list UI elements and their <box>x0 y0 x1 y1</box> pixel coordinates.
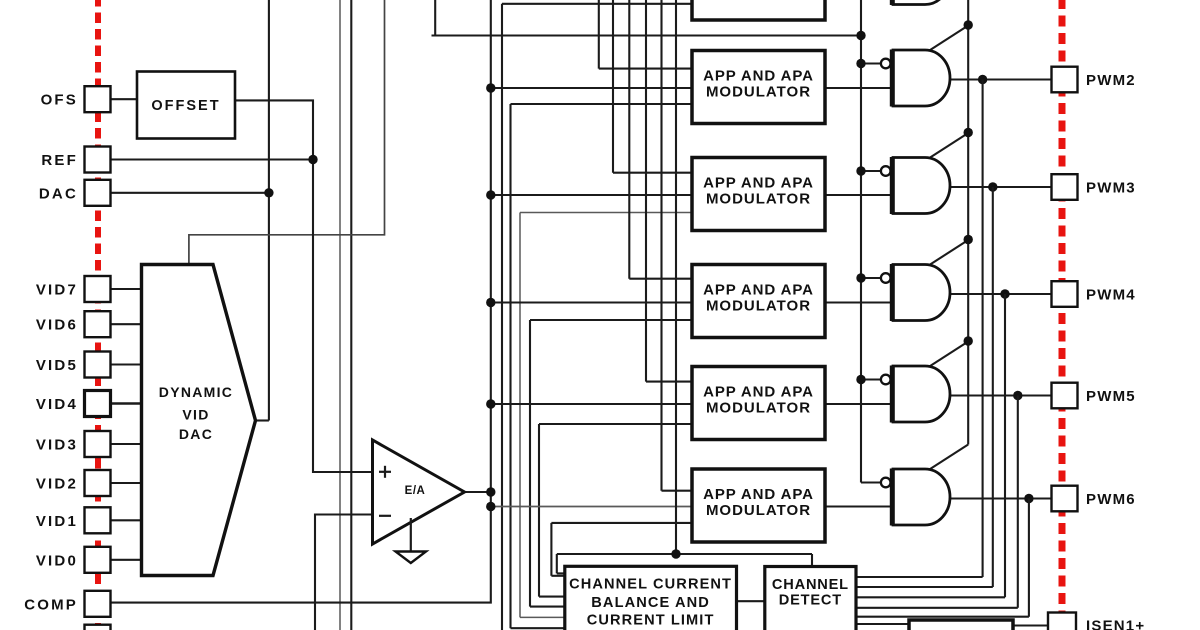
wire: gate U5 output to PWM5 pin <box>946 394 1052 396</box>
wire: bubble input stub gate U3 <box>861 170 881 172</box>
svg-text:CHANNEL CURRENT: CHANNEL CURRENT <box>569 577 732 593</box>
wire: modulator 3 output to NAND gate U3 <box>825 194 892 196</box>
junction enable rail and top rail y=35.5 <box>856 31 865 40</box>
svg-text:MODULATOR: MODULATOR <box>706 502 811 519</box>
svg-text:DAC: DAC <box>39 185 78 202</box>
wire: channel-1 balance line x=502 (from y=3.8 elbow into top modulator, down off-crop) <box>502 4 692 630</box>
svg-text:VID0: VID0 <box>36 552 78 569</box>
wire: VID4 pin stub into DAC <box>111 402 143 405</box>
wire: select diagonal into gate U3 <box>927 133 968 160</box>
svg-text:APP AND APA: APP AND APA <box>703 68 814 85</box>
block: APP AND APA MODULATOR 6 <box>692 469 825 542</box>
junction select diagonal on mode bus U2 <box>964 20 973 29</box>
NAND-style gate U4 <box>881 264 950 321</box>
block: APP AND APA MODULATOR 5 <box>692 367 825 440</box>
svg-text:VID: VID <box>182 407 209 423</box>
wire: DAC voltage bus x=269 (top to DAC output elbow) <box>255 0 269 421</box>
pin VID6 <box>36 311 111 337</box>
wire: VID5 pin stub into DAC <box>111 363 143 365</box>
junction select diagonal on mode bus U3 <box>964 128 973 137</box>
wire: current-balance line C5 from modulator 5 down into CHANNEL CURRENT BALANCE box <box>539 424 692 597</box>
wire: current-balance line C4 from modulator 4 down into CHANNEL CURRENT BALANCE box <box>530 320 692 607</box>
gate U1 (cropped at top) <box>893 0 950 5</box>
wire: modulator 4 output to NAND gate U4 <box>825 301 892 303</box>
svg-text:PWM5: PWM5 <box>1086 388 1136 405</box>
wire: error-amp output to COMP bus <box>465 491 491 493</box>
wire: gate U6 output to PWM6 pin <box>946 497 1052 499</box>
junction B6 tap on COMP bus <box>486 502 495 511</box>
block: CHANNEL CURRENT BALANCE AND CURRENT LIMIT <box>565 566 737 630</box>
wire: balance box to channel detect <box>737 600 766 602</box>
junction B2 tap on COMP bus <box>486 83 495 92</box>
wire: VID7 pin stub into DAC <box>111 288 143 290</box>
pin VID7 <box>36 276 111 302</box>
pin FB (cropped) <box>85 625 111 630</box>
pin VID3 <box>36 431 111 457</box>
wire: modulator 5 output to NAND gate U5 <box>825 403 892 405</box>
junction REF to reference bus <box>308 155 317 164</box>
wire: PWM2 sense line down into CHANNEL DETECT <box>857 80 983 578</box>
svg-text:VID3: VID3 <box>36 437 78 454</box>
wire: bubble input stub gate U6 <box>861 481 881 483</box>
wire: phase clock input A6 from top bus x=661.5 into modulator 6 <box>662 0 693 491</box>
wire: select diagonal into gate U6 (end of mode bus) <box>927 445 968 472</box>
wire: select diagonal into gate U5 <box>927 342 968 369</box>
wire: gate U3 output to PWM3 pin <box>946 186 1052 188</box>
wire: select diagonal into gate U2 <box>927 26 968 53</box>
wire: VID3 pin stub into DAC <box>111 443 143 445</box>
pin REF <box>41 147 110 173</box>
junction select diagonal on mode bus U5 <box>964 336 973 345</box>
wire: error-amp signal tap B4 from COMP bus into modulator 4 <box>491 301 692 303</box>
ground symbol below E/A <box>396 518 427 563</box>
wire: phase clock input A3 from top bus x=613.0 into modulator 3 <box>613 0 692 173</box>
wire: FB net from error-amp - input down off-crop x=315 <box>315 515 373 630</box>
svg-text:CURRENT LIMIT: CURRENT LIMIT <box>587 613 715 629</box>
wire: OFS pin to OFFSET block <box>111 98 139 100</box>
wire: error-amp signal tap B3 from COMP bus into modulator 3 <box>491 194 692 196</box>
block: DYNAMIC VID DAC <box>142 265 256 576</box>
svg-text:VID7: VID7 <box>36 282 78 299</box>
svg-text:VID6: VID6 <box>36 317 78 334</box>
wire: bubble input stub gate U2 <box>861 62 881 64</box>
junction enable rail at gate U3 <box>856 166 865 175</box>
wire: PWM6 sense line down into CHANNEL DETECT <box>857 499 1029 617</box>
pin PWM2 <box>1052 67 1136 93</box>
op-amp E/A <box>373 440 465 544</box>
junction PWM2 output sense tap <box>978 75 987 84</box>
svg-text:OFS: OFS <box>41 92 78 109</box>
wire: VID2 pin stub into DAC <box>111 482 143 484</box>
wire: PWM3 sense line down into CHANNEL DETECT <box>857 187 993 587</box>
wire: gate-enable bus x=861 from top to gate 6 bubble <box>860 0 862 483</box>
svg-text:MODULATOR: MODULATOR <box>706 84 811 101</box>
NAND-style gate U3 <box>881 157 950 214</box>
svg-text:PWM2: PWM2 <box>1086 72 1136 89</box>
wire: select diagonal into gate U4 <box>927 240 968 267</box>
wire: phase clock input A5 from top bus x=646.0 into modulator 5 <box>646 0 692 382</box>
block: top modulator (cropped) <box>692 0 825 20</box>
pin OFS <box>41 86 111 112</box>
block: APP AND APA MODULATOR 3 <box>692 158 825 231</box>
junction on channel detect feed at x=676 <box>671 549 680 558</box>
svg-text:BALANCE AND: BALANCE AND <box>591 595 710 611</box>
NAND-style gate U5 <box>881 366 950 423</box>
junction B5 tap on COMP bus <box>486 399 495 408</box>
svg-text:VID5: VID5 <box>36 357 78 374</box>
wire: error-amp signal tap B6 from COMP bus into modulator 6 <box>491 506 692 508</box>
pin VID5 <box>36 352 111 378</box>
junction PWM4 output sense tap <box>1000 289 1009 298</box>
svg-text:DYNAMIC: DYNAMIC <box>159 384 233 400</box>
svg-text:APP AND APA: APP AND APA <box>703 175 814 192</box>
pin VID2 <box>36 470 111 496</box>
block: CHANNEL DETECT <box>765 567 856 630</box>
svg-text:MODULATOR: MODULATOR <box>706 400 811 417</box>
svg-text:VID1: VID1 <box>36 513 78 530</box>
pin ISEN1+ <box>1048 613 1145 630</box>
svg-text:PWM3: PWM3 <box>1086 180 1136 197</box>
block: sample and hold (cropped) <box>909 620 1013 630</box>
wire: mode bus x=968 feeding gate select diagonals <box>967 0 969 445</box>
wire: enable net top rail y=35.5 from x=432 elbow up to top edge <box>432 0 862 36</box>
wire: phase clock input A4 from top bus x=629.3 into modulator 4 <box>629 0 692 279</box>
svg-text:PWM4: PWM4 <box>1086 287 1136 304</box>
wire: current-balance line C2 from modulator 2 down into CHANNEL CURRENT BALANCE box <box>511 104 693 628</box>
wire: vertical bus x=340 <box>339 0 341 630</box>
junction error-amp output on COMP bus <box>486 487 495 496</box>
junction PWM5 output sense tap <box>1013 391 1022 400</box>
junction enable rail at gate U2 <box>856 59 865 68</box>
svg-text:COMP: COMP <box>24 596 78 613</box>
junction enable rail at gate U5 <box>856 375 865 384</box>
right red dashed boundary rail <box>1059 0 1066 630</box>
wire: VID0 pin stub into DAC <box>111 559 143 561</box>
block: OFFSET <box>137 72 235 139</box>
junction B4 tap on COMP bus <box>486 298 495 307</box>
pin DAC <box>39 180 111 206</box>
wire: COMP / error-amp output bus x=490.8 with elbow to COMP pin <box>111 0 491 603</box>
svg-text:CHANNEL: CHANNEL <box>772 577 849 593</box>
wire: gate U2 output to PWM2 pin <box>946 78 1052 80</box>
wire: modulator 2 output to NAND gate U2 <box>825 87 892 89</box>
pin COMP <box>24 591 110 617</box>
svg-text:DETECT: DETECT <box>779 593 842 609</box>
wire: sample-hold box to ISEN1+ pin <box>1013 624 1048 626</box>
svg-text:E/A: E/A <box>405 485 426 497</box>
wire: error-amp signal tap B2 from COMP bus into modulator 2 <box>491 87 692 89</box>
junction enable rail at gate U4 <box>856 273 865 282</box>
junction select diagonal on mode bus U4 <box>964 235 973 244</box>
pin VID4 <box>36 391 111 417</box>
pin PWM5 <box>1052 383 1136 409</box>
wire: VID1 pin stub into DAC <box>111 519 143 521</box>
svg-text:VID4: VID4 <box>36 396 78 413</box>
wire: DAC pin to DAC voltage bus <box>111 192 269 194</box>
svg-text:ISEN1+: ISEN1+ <box>1086 618 1145 630</box>
wire: vertical bus x=351 <box>350 0 352 630</box>
svg-text:APP AND APA: APP AND APA <box>703 384 814 401</box>
svg-text:PWM6: PWM6 <box>1086 491 1136 508</box>
wire: PWM5 sense line down into CHANNEL DETECT <box>857 396 1018 608</box>
wire: bubble input stub gate U5 <box>861 378 881 380</box>
pin PWM3 <box>1052 174 1136 200</box>
NAND-style gate U2 <box>881 50 950 107</box>
junction PWM3 output sense tap <box>988 182 997 191</box>
wire: channel detect to sample-hold box <box>856 623 909 625</box>
wire: OFFSET output down reference bus x=313 to error-amp + input <box>235 100 373 472</box>
pin VID1 <box>36 507 111 533</box>
block: APP AND APA MODULATOR 4 <box>692 265 825 338</box>
wire: error-amp signal tap B5 from COMP bus into modulator 5 <box>491 403 692 405</box>
pin VID0 <box>36 547 111 573</box>
pin PWM4 <box>1052 281 1136 307</box>
svg-text:REF: REF <box>41 152 78 169</box>
NAND-style gate U6 <box>881 469 950 526</box>
svg-text:MODULATOR: MODULATOR <box>706 298 811 315</box>
wire: current-balance line C3 from modulator 3 down into CHANNEL CURRENT BALANCE box <box>520 213 692 618</box>
svg-text:APP AND APA: APP AND APA <box>703 486 814 503</box>
svg-text:MODULATOR: MODULATOR <box>706 191 811 208</box>
junction DAC pin on DAC bus <box>264 188 273 197</box>
wire: current-balance line C6 from modulator 6 down into balance box <box>551 523 692 576</box>
svg-text:OFFSET: OFFSET <box>151 98 220 114</box>
svg-text:APP AND APA: APP AND APA <box>703 282 814 299</box>
svg-text:VID2: VID2 <box>36 476 78 493</box>
junction B3 tap on COMP bus <box>486 190 495 199</box>
left red dashed boundary rail <box>95 0 101 630</box>
wire: channel detect feed from vertical x=676 across y=554 into CHANNEL DETECT top <box>557 0 812 573</box>
block: APP AND APA MODULATOR 2 <box>692 51 825 124</box>
wire: DAC select net x=384.5 down to y=234.8 over to DYNAMIC VID DAC top <box>189 0 385 266</box>
wire: gate U4 output to PWM4 pin <box>946 293 1052 295</box>
svg-text:DAC: DAC <box>179 426 213 442</box>
wire: REF pin line to reference node <box>111 158 314 160</box>
wire: VID6 pin stub into DAC <box>111 323 143 325</box>
wire: PWM4 sense line down into CHANNEL DETECT <box>857 294 1005 597</box>
junction PWM6 output sense tap <box>1024 494 1033 503</box>
wire: modulator 6 output to NAND gate U6 <box>825 505 892 507</box>
wire: phase clock input A2 from top bus x=598.8 into modulator 2 <box>599 0 692 69</box>
pin PWM6 <box>1052 486 1136 512</box>
wire: bubble input stub gate U4 <box>861 277 881 279</box>
